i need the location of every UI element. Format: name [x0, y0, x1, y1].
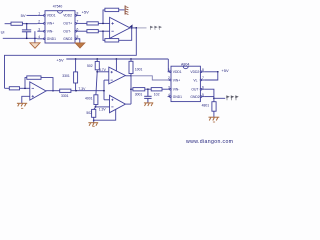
wire U4b apex to vertical — [125, 103, 131, 105]
U3 output wire — [46, 90, 60, 92]
wire U5 pin6 OUT down — [204, 89, 214, 98]
U4a - mark — [111, 79, 113, 81]
resistor from OUT- (pin6) — [87, 30, 98, 33]
node rail 502 — [96, 58, 98, 60]
node output right — [213, 97, 215, 99]
output wire right — [214, 97, 225, 99]
comparator U4a — [109, 67, 126, 84]
wire down to ground — [34, 38, 36, 43]
wire chain bottom to U4b V- stub — [94, 107, 116, 121]
svg-text:5: 5 — [202, 93, 204, 97]
svg-text:Ui: Ui — [1, 29, 5, 34]
resistor 4001 — [94, 95, 98, 105]
svg-text:8: 8 — [202, 68, 204, 72]
wire feedback to output — [41, 78, 53, 91]
svg-text:GND2: GND2 — [190, 95, 199, 99]
svg-text:47540: 47540 — [53, 4, 63, 8]
svg-text:6: 6 — [202, 85, 204, 89]
U2 output flag mark — [130, 25, 132, 27]
ground under U3 — [17, 103, 27, 108]
node input cap top — [26, 23, 28, 25]
U4a + mark — [111, 71, 113, 73]
node U4a output — [130, 75, 132, 77]
wire U2 out down and across left — [5, 28, 137, 88]
svg-text:OUT+: OUT+ — [63, 22, 72, 26]
U3 - mark — [32, 87, 34, 89]
svg-text:GND1: GND1 — [47, 37, 56, 41]
node chain bottom — [93, 119, 95, 121]
IC U1 body (47540) — [45, 11, 75, 43]
capacitor C input — [22, 24, 31, 39]
U4a power stub from rail — [115, 59, 117, 73]
svg-text:1: 1 — [38, 12, 40, 16]
output tick marks bottom right — [227, 96, 238, 100]
svg-text:OUT: OUT — [191, 88, 198, 92]
op-amp U3 — [30, 82, 46, 100]
U5 internal pin labels — [173, 70, 200, 99]
svg-text:GND2: GND2 — [63, 37, 72, 41]
svg-text:1.3V: 1.3V — [99, 107, 107, 111]
svg-text:502: 502 — [87, 64, 93, 68]
wire to op-amp -in — [98, 30, 109, 32]
U1 internal pin labels — [47, 14, 73, 41]
U3 +in to ground wire — [22, 96, 30, 103]
wire into U3 input resistor — [5, 87, 10, 89]
node 3001 tap — [130, 88, 132, 90]
op-amp U2 — [110, 17, 130, 38]
svg-text:+5V: +5V — [82, 10, 90, 15]
U4b - mark — [111, 106, 113, 108]
wire 1.3V to U4b -in — [95, 106, 109, 108]
node U3 feedback tap — [24, 87, 26, 89]
wire U4a -in — [104, 79, 109, 81]
hatched ground top right — [125, 5, 128, 14]
wire to op-amp +in — [98, 22, 109, 24]
wire +5V down to pin7 — [204, 72, 218, 80]
feedback resistor bottom of U2 — [103, 28, 132, 42]
svg-text:A804: A804 — [181, 62, 189, 66]
svg-text:OUT-: OUT- — [63, 30, 71, 34]
resistor R input — [11, 22, 22, 25]
wire 102 to IC2 pin3 — [162, 88, 168, 90]
svg-text:7: 7 — [202, 76, 204, 80]
svg-text:3: 3 — [38, 27, 40, 31]
svg-text:8: 8 — [77, 12, 79, 16]
svg-text:VIN+: VIN+ — [47, 22, 54, 26]
pull-up resistor 1001 — [129, 59, 133, 76]
svg-text:3001: 3001 — [135, 93, 143, 97]
node pin3 branch — [34, 37, 36, 39]
svg-text:7.3V: 7.3V — [78, 87, 86, 91]
U1 pin numbers right 8-5 — [77, 12, 79, 39]
resistor from OUT+ (pin7) — [87, 22, 98, 25]
svg-text:4: 4 — [38, 35, 40, 39]
wire up to pin3 — [34, 31, 36, 38]
wire 3001 to 102 — [131, 88, 151, 90]
resistor U3 feedback — [27, 76, 41, 79]
svg-text:2: 2 — [168, 76, 170, 80]
svg-text:4801: 4801 — [202, 103, 210, 107]
ground (filled triangle) under U1 right — [75, 43, 85, 48]
svg-text:VIN-: VIN- — [173, 88, 180, 92]
svg-text:GND1: GND1 — [173, 95, 182, 99]
resistor U3 output 3301 — [60, 89, 71, 92]
output tick marks top right — [150, 26, 161, 30]
comparator U4b — [110, 95, 126, 112]
signal riser between comparators — [103, 80, 105, 100]
svg-text:VIN+: VIN+ — [173, 78, 180, 82]
U2 - mark — [111, 30, 113, 32]
ground chain bottom — [88, 123, 98, 127]
wire resistor to U3 -in — [20, 87, 30, 89]
signal wire to comparators — [71, 90, 104, 92]
node rail 1001 — [130, 58, 132, 60]
input wire Ui top — [5, 23, 11, 25]
svg-text:VIN-: VIN- — [47, 30, 54, 34]
wire U4a apex to node — [125, 75, 131, 77]
U2 + mark — [111, 22, 113, 24]
svg-text:+5V: +5V — [56, 57, 64, 62]
svg-text:7: 7 — [77, 20, 79, 24]
capacitor filter — [144, 89, 151, 103]
wire Ui bottom rail — [3, 37, 38, 39]
ground under 4801 — [209, 117, 220, 122]
svg-text:VDD1: VDD1 — [47, 14, 56, 18]
node +5V right — [217, 71, 219, 73]
node 3.7V — [96, 71, 98, 73]
node rail 3301 — [75, 58, 77, 60]
node 7.3V — [75, 90, 77, 92]
U1 pin stubs right — [75, 15, 87, 40]
svg-text:VL: VL — [193, 78, 197, 82]
svg-text:5: 5 — [77, 35, 79, 39]
node U2 output feedback — [131, 27, 133, 29]
wire U5 pin8 to +5V — [204, 71, 218, 73]
svg-text:502: 502 — [86, 111, 92, 115]
ground (open triangle) under pin4 — [30, 43, 40, 48]
svg-text:3.7V: 3.7V — [99, 68, 107, 72]
U2 output wire — [130, 27, 137, 29]
svg-text:102: 102 — [154, 93, 160, 97]
U5 pin numbers right 8-5 — [202, 68, 204, 97]
wire 3.7V to U4a +in — [97, 71, 109, 73]
node 1.3V — [95, 106, 97, 108]
svg-text:3: 3 — [168, 85, 170, 89]
ground under filter cap — [144, 103, 153, 106]
+5V rail wire — [66, 58, 168, 60]
node U3 output — [52, 90, 54, 92]
feedback resistor top of U2 — [103, 8, 124, 23]
IC U5 body (A804) — [171, 66, 200, 101]
resistor 502 bottom — [92, 109, 96, 117]
node feedback bottom tap — [102, 30, 104, 32]
U4b + mark — [111, 99, 113, 101]
svg-text:3301: 3301 — [61, 94, 69, 98]
svg-text:4001: 4001 — [85, 97, 93, 101]
rail riser to U5 pin1 — [167, 59, 169, 72]
U5 pin stubs left — [168, 71, 172, 97]
svg-text:1001: 1001 — [135, 68, 143, 72]
U1 pin stubs left — [37, 15, 45, 40]
svg-text:4: 4 — [168, 93, 170, 97]
wire U5 pin5 to node — [204, 96, 214, 98]
node signal tee — [103, 90, 105, 92]
resistor 102 — [151, 88, 162, 91]
wire pin5 to ground — [78, 39, 81, 43]
wire 5V to pin1 — [27, 14, 38, 16]
node U2 output down tap — [135, 27, 137, 29]
node filter cap — [147, 88, 149, 90]
node cap bottom — [26, 37, 28, 39]
svg-text:5V: 5V — [21, 13, 26, 18]
svg-text:6: 6 — [77, 27, 79, 31]
resistor 4801 — [212, 98, 216, 117]
resistor 3301 vertical — [74, 59, 78, 91]
svg-text:+5V: +5V — [221, 68, 229, 73]
svg-text:VDD2: VDD2 — [190, 70, 199, 74]
divider chain 502 top — [95, 59, 99, 95]
U3 + mark — [32, 95, 34, 97]
shared output vertical — [130, 76, 132, 104]
resistor 3001 — [133, 88, 145, 91]
faint output lead — [137, 27, 147, 29]
wire comparator out to IC2 pin2 — [131, 76, 168, 80]
U5 pin stubs right — [200, 71, 204, 97]
wire U4b +in — [104, 99, 110, 101]
U3 feedback riser — [25, 78, 27, 89]
U5 pin numbers left 1-4 — [168, 68, 170, 97]
svg-text:VDD1: VDD1 — [173, 70, 182, 74]
wire resistor to pin2 — [22, 23, 37, 25]
svg-text:2: 2 — [38, 20, 40, 24]
svg-text:www.diangon.com: www.diangon.com — [186, 139, 233, 145]
resistor U3 input — [9, 87, 19, 90]
svg-text:VDD2: VDD2 — [63, 14, 72, 18]
node feedback top tap — [102, 23, 104, 25]
U1 pin numbers left 1-4 — [38, 12, 40, 39]
node rail U4a power — [116, 58, 118, 60]
svg-text:3301: 3301 — [62, 74, 70, 78]
